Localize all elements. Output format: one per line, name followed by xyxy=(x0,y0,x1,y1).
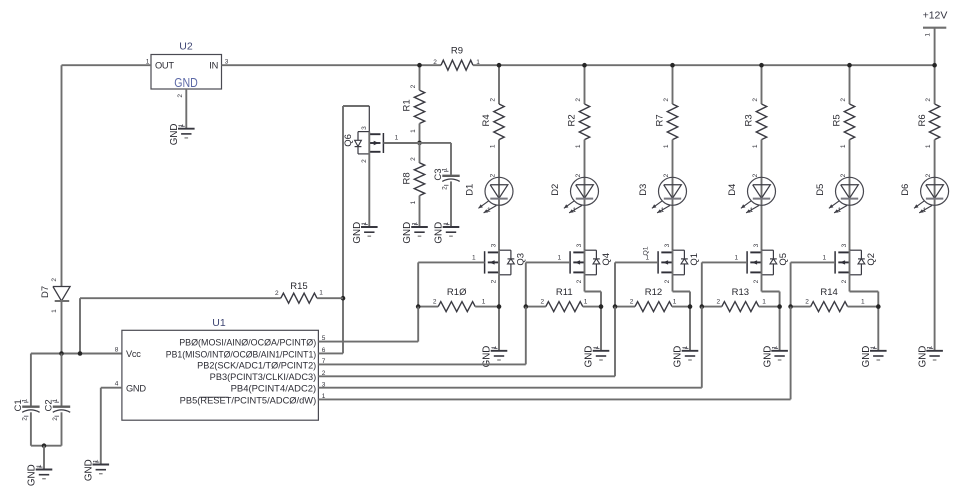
svg-text:1: 1 xyxy=(557,254,561,261)
svg-text:2: 2 xyxy=(410,84,417,88)
svg-text:Q1: Q1 xyxy=(689,253,700,266)
svg-text:2: 2 xyxy=(410,157,417,161)
svg-text:2: 2 xyxy=(275,290,279,297)
svg-text:2: 2 xyxy=(540,299,544,306)
svg-text:U1: U1 xyxy=(212,317,226,329)
svg-text:2: 2 xyxy=(752,173,759,177)
svg-text:1: 1 xyxy=(489,144,496,148)
svg-text:D2: D2 xyxy=(550,184,561,196)
svg-text:2: 2 xyxy=(21,417,28,421)
svg-text:1: 1 xyxy=(575,144,582,148)
svg-text:2: 2 xyxy=(52,417,59,421)
svg-text:2: 2 xyxy=(663,98,670,102)
svg-text:1: 1 xyxy=(410,200,417,204)
svg-text:Q4: Q4 xyxy=(601,253,612,266)
svg-text:2: 2 xyxy=(433,59,437,66)
svg-text:1: 1 xyxy=(395,135,399,142)
svg-text:1: 1 xyxy=(660,207,664,214)
svg-text:1: 1 xyxy=(441,167,448,171)
svg-text:R13: R13 xyxy=(732,287,749,298)
svg-text:2: 2 xyxy=(841,279,848,283)
svg-text:1: 1 xyxy=(822,254,826,261)
svg-text:2: 2 xyxy=(630,299,634,306)
svg-text:2: 2 xyxy=(840,98,847,102)
svg-text:2: 2 xyxy=(840,173,847,177)
svg-text:R8: R8 xyxy=(402,172,413,184)
svg-text:2: 2 xyxy=(575,173,582,177)
svg-text:Vcc: Vcc xyxy=(126,349,141,359)
svg-text:2: 2 xyxy=(441,186,448,190)
svg-text:2: 2 xyxy=(805,299,809,306)
svg-text:2: 2 xyxy=(752,98,759,102)
svg-text:R15: R15 xyxy=(290,281,307,292)
svg-text:R11: R11 xyxy=(556,287,573,298)
svg-text:1: 1 xyxy=(584,299,588,306)
svg-text:3: 3 xyxy=(490,243,497,247)
svg-text:D5: D5 xyxy=(815,184,826,196)
svg-text:+12V: +12V xyxy=(923,10,948,22)
svg-text:1: 1 xyxy=(673,299,677,306)
svg-text:1: 1 xyxy=(734,254,738,261)
svg-text:D7: D7 xyxy=(40,286,51,298)
svg-text:GND: GND xyxy=(174,76,198,90)
svg-text:2: 2 xyxy=(489,98,496,102)
svg-text:1: 1 xyxy=(861,299,865,306)
svg-text:2: 2 xyxy=(925,173,932,177)
svg-text:2: 2 xyxy=(925,98,932,102)
svg-text:Q1: Q1 xyxy=(642,246,649,255)
svg-text:R1Ø: R1Ø xyxy=(447,287,467,298)
svg-text:D3: D3 xyxy=(638,184,649,196)
svg-text:GND: GND xyxy=(126,383,146,393)
svg-text:Q6: Q6 xyxy=(343,134,354,147)
svg-text:8: 8 xyxy=(115,346,119,353)
svg-text:PB2(SCK/ADC1/TØ/PCINT2): PB2(SCK/ADC1/TØ/PCINT2) xyxy=(197,360,316,370)
svg-text:U2: U2 xyxy=(179,41,193,53)
svg-text:1: 1 xyxy=(52,398,59,402)
svg-text:R2: R2 xyxy=(567,114,578,126)
svg-text:R1: R1 xyxy=(402,99,413,111)
svg-text:3: 3 xyxy=(664,243,671,247)
svg-text:3: 3 xyxy=(576,243,583,247)
svg-text:2: 2 xyxy=(490,279,497,283)
svg-text:4: 4 xyxy=(115,381,119,388)
svg-text:OUT: OUT xyxy=(155,61,174,71)
svg-text:PB1(MISO/INTØ/OCØB/AIN1/PCINT1: PB1(MISO/INTØ/OCØB/AIN1/PCINT1) xyxy=(166,349,316,359)
svg-text:2: 2 xyxy=(361,159,368,163)
svg-text:D1: D1 xyxy=(465,184,476,196)
svg-text:1: 1 xyxy=(663,144,670,148)
svg-text:2: 2 xyxy=(753,279,760,283)
svg-text:R14: R14 xyxy=(820,287,837,298)
svg-text:Q5: Q5 xyxy=(778,253,789,266)
svg-text:R12: R12 xyxy=(645,287,662,298)
svg-text:1: 1 xyxy=(837,207,841,214)
svg-text:R3: R3 xyxy=(744,114,755,126)
svg-text:PB4(PCINT4/ADC2): PB4(PCINT4/ADC2) xyxy=(231,384,317,394)
svg-text:1: 1 xyxy=(925,144,932,148)
svg-text:PB3(PCINT3/CLKI/ADC3): PB3(PCINT3/CLKI/ADC3) xyxy=(210,372,317,382)
svg-text:1: 1 xyxy=(762,299,766,306)
svg-text:2: 2 xyxy=(664,279,671,283)
svg-text:2: 2 xyxy=(433,299,437,306)
svg-text:1: 1 xyxy=(487,207,491,214)
svg-text:D6: D6 xyxy=(900,184,911,196)
svg-text:R7: R7 xyxy=(655,114,666,126)
svg-text:R5: R5 xyxy=(832,114,843,126)
svg-text:2: 2 xyxy=(489,173,496,177)
svg-text:Q2: Q2 xyxy=(866,253,877,266)
svg-text:1: 1 xyxy=(923,207,927,214)
svg-text:1: 1 xyxy=(925,33,932,37)
svg-text:PBØ(MOSI/AINØ/OCØA/PCINTØ): PBØ(MOSI/AINØ/OCØA/PCINTØ) xyxy=(179,338,316,348)
svg-text:3: 3 xyxy=(361,126,368,130)
svg-text:1: 1 xyxy=(319,290,323,297)
svg-text:1: 1 xyxy=(752,144,759,148)
svg-text:2: 2 xyxy=(51,278,58,282)
svg-text:R4: R4 xyxy=(481,114,492,126)
svg-text:D4: D4 xyxy=(727,184,738,196)
svg-text:1: 1 xyxy=(472,254,476,261)
svg-text:1: 1 xyxy=(21,398,28,402)
svg-text:2: 2 xyxy=(576,279,583,283)
svg-text:1: 1 xyxy=(410,129,417,133)
svg-text:2: 2 xyxy=(716,299,720,306)
svg-text:1: 1 xyxy=(572,207,576,214)
svg-text:2: 2 xyxy=(177,94,184,98)
svg-text:3: 3 xyxy=(841,243,848,247)
svg-text:1: 1 xyxy=(840,144,847,148)
svg-text:3: 3 xyxy=(753,243,760,247)
svg-text:2: 2 xyxy=(663,173,670,177)
svg-text:R9: R9 xyxy=(451,46,463,57)
svg-text:1: 1 xyxy=(51,309,58,313)
svg-text:IN: IN xyxy=(209,61,218,71)
svg-text:1: 1 xyxy=(482,299,486,306)
svg-text:1: 1 xyxy=(749,207,753,214)
svg-text:R6: R6 xyxy=(917,114,928,126)
svg-text:2: 2 xyxy=(575,98,582,102)
